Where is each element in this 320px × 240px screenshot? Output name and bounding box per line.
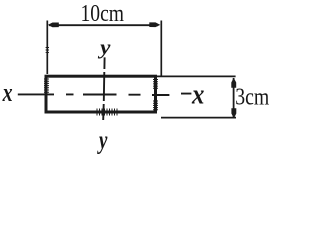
x axis dashed centerline [18,94,192,95]
svg-text:y: y [97,126,108,155]
3cm bottom arrowhead [231,108,236,118]
left arrowhead [48,23,59,28]
dimension extension line right [160,21,162,77]
svg-text:x: x [191,80,204,111]
3cm top extension line [157,75,236,77]
svg-text:x: x [2,78,13,107]
right arrowhead [149,22,160,27]
hatch ticks on right edge [153,80,158,110]
3cm top arrowhead [231,78,236,88]
svg-text:10cm: 10cm [81,0,125,27]
3cm bottom extension line [161,117,236,119]
svg-text:3cm: 3cm [235,85,269,111]
small scan ticks on left extension line [46,48,49,53]
hatch ticks on bottom edge near centre [97,109,117,116]
3cm dimension line [233,78,235,119]
dimension extension line left [46,21,48,75]
y axis dashed centerline [103,57,104,120]
dimension line 10cm [49,24,158,26]
hatch ticks on left edge [44,79,49,92]
cross-section rectangle [46,76,156,112]
